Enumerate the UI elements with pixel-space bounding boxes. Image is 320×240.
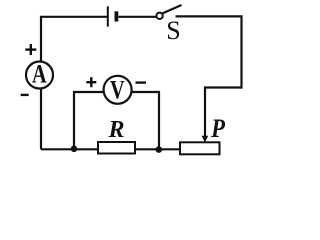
svg-text:P: P (210, 115, 226, 144)
svg-text:V: V (110, 76, 125, 105)
svg-text:A: A (32, 60, 47, 89)
svg-text:S: S (166, 16, 180, 45)
svg-text:R: R (107, 117, 124, 143)
